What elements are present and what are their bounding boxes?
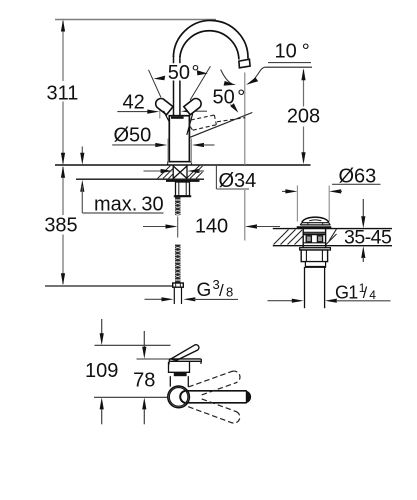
arrow down 208: [301, 152, 305, 164]
swivel boundary line L1: [190, 113, 253, 138]
Ø63 extension lines: [296, 186, 298, 222]
swivel arc right piece (10deg arrow) with arrowhead: [254, 67, 265, 80]
leader max30: [81, 186, 83, 213]
arrow left G38: [183, 297, 195, 301]
dimension 109: [101, 319, 103, 335]
gooseneck arc: [173, 20, 248, 58]
svg-text:50°: 50°: [213, 87, 246, 109]
svg-text:/: /: [219, 281, 224, 300]
dimension Ø63 arrows: [282, 190, 287, 192]
arrow right 140 left end: [166, 224, 178, 228]
arrow down 385 bottom: [61, 273, 65, 285]
svg-text:140: 140: [195, 216, 228, 238]
base ring mid circle: [169, 388, 188, 407]
arrow up 208: [301, 68, 305, 80]
waste washer under deck: [300, 248, 331, 250]
extension line from spout outlet down: [244, 73, 246, 166]
svg-text:G1: G1: [335, 282, 358, 302]
radiating line right (handle swing boundary): [190, 66, 210, 100]
dimension Ø34 arrows at shank: [144, 170, 162, 172]
base ring outer circle: [168, 386, 190, 408]
svg-text:35-45: 35-45: [344, 227, 392, 249]
G 3/8 connection nut: [173, 283, 184, 287]
mounting nut: [176, 182, 190, 196]
dashed handle swung position capsule: [190, 115, 245, 130]
extension line 42: [159, 105, 161, 119]
svg-text:8: 8: [226, 285, 233, 300]
extension tick at stud centre: [177, 217, 179, 238]
10deg reference line (208 top extension): [265, 66, 312, 68]
faucet body: [169, 116, 189, 162]
arrow right 42: [147, 110, 159, 114]
waste body slots: [306, 236, 311, 242]
cartridge cap side view: [169, 362, 190, 372]
extension line lever base: [137, 358, 173, 360]
side lever nose plate: [169, 359, 202, 365]
dimension G1 1/4: [268, 300, 294, 302]
arrow down max30: [80, 153, 84, 165]
leader with arrowhead to swivel line: [231, 105, 236, 110]
arrow up 311 top: [61, 20, 65, 32]
body side view: [169, 376, 171, 386]
svg-text:311: 311: [47, 83, 79, 105]
cartridge line inside body top: [171, 117, 184, 119]
leader underline Ø63: [332, 183, 381, 185]
dimension Ø50: [112, 144, 156, 146]
wire: top extension line (spout top reference): [55, 19, 216, 21]
dimension 42: [117, 111, 148, 113]
arrow left Ø50: [192, 143, 204, 147]
basin hatch right: [326, 229, 337, 245]
swivel arc left piece with arrowhead: [221, 70, 232, 84]
svg-text:Ø63: Ø63: [339, 166, 377, 188]
svg-text:G: G: [197, 280, 212, 301]
waste hex nut: [301, 250, 327, 262]
spout riser tube: [174, 56, 180, 116]
dimension max.30 arrows: [81, 147, 83, 155]
spout tube top view solid: [180, 391, 250, 403]
threaded stud lower segment: [175, 245, 181, 283]
arrow right G38: [162, 297, 174, 301]
waste cap dome: [302, 217, 329, 222]
dimension G3/8 arrows: [145, 298, 163, 300]
leader underline G38: [194, 298, 239, 300]
arc arrowhead right of 50deg: [197, 70, 208, 75]
arrow up max30: [80, 180, 84, 192]
dimension 385 line: [62, 167, 64, 284]
deck hatch left of shank: [158, 166, 174, 179]
handle knob right position: [184, 96, 203, 114]
handle knob left position: [154, 96, 173, 114]
extension line spout axis: [94, 396, 168, 398]
dimension 35-45 arrows: [362, 199, 364, 217]
dimension 140: [143, 226, 166, 228]
waste body neck through deck: [302, 229, 304, 248]
arrow down 311 bottom: [61, 153, 65, 165]
waste cap bottom rim: [297, 226, 332, 228]
10deg underline: [268, 62, 311, 64]
basin deck top line: [273, 228, 392, 230]
Ø50 extension lines: [167, 139, 169, 164]
arrow up 385 top: [61, 166, 65, 178]
arrow right Ø34 left: [161, 169, 173, 173]
extension line lever top: [95, 344, 171, 346]
handle stem right: [187, 114, 193, 135]
svg-text:78: 78: [133, 369, 155, 391]
washer under deck: [166, 180, 200, 182]
arrow left at spout pipe (42 right side): [181, 109, 193, 113]
svg-text:/: /: [363, 285, 368, 302]
svg-text:Ø50: Ø50: [114, 125, 152, 147]
svg-text:50°: 50°: [168, 62, 200, 84]
svg-text:4: 4: [369, 288, 376, 302]
wire: countertop deck bottom line: [76, 178, 204, 180]
svg-text:208: 208: [287, 106, 320, 128]
svg-text:42: 42: [123, 92, 145, 114]
svg-text:max. 30: max. 30: [94, 194, 164, 216]
side lever blade: [171, 345, 199, 361]
spout tube swung up (dashed): [188, 369, 241, 398]
connection pipe: [173, 287, 175, 304]
dimension 208: [303, 70, 305, 162]
arrow right Ø50: [155, 143, 167, 147]
svg-text:109: 109: [85, 360, 118, 382]
dimension 78: [143, 331, 145, 348]
arc arrowhead left of 50deg: [154, 76, 166, 81]
spout tube swung down (dashed): [188, 395, 241, 424]
leader step Ø34: [215, 165, 217, 189]
deck hatch right of shank: [188, 166, 203, 179]
threaded stud upper segment: [175, 197, 181, 215]
body base flange: [168, 161, 191, 163]
svg-text:Ø34: Ø34: [219, 170, 257, 192]
basin deck bottom line: [273, 245, 392, 247]
arrow left Ø34 right: [187, 169, 199, 173]
basin hatch left: [274, 230, 304, 245]
svg-text:10°: 10°: [275, 41, 310, 63]
waste tailpipe: [304, 267, 306, 308]
dimension 311 line: [62, 21, 64, 164]
wire: bottom reference line (hose connection level): [45, 285, 173, 287]
waste collar: [305, 262, 325, 267]
wire: countertop deck top line: [55, 164, 311, 166]
radiating line left (handle swing boundary): [149, 70, 161, 98]
cartridge dark ring: [174, 372, 187, 376]
handle stem left: [164, 111, 170, 123]
svg-text:385: 385: [44, 215, 77, 237]
faucet mounting shank through deck: [173, 165, 187, 179]
arrow left 140 right end: [245, 224, 257, 228]
spout aerator tip: [239, 59, 250, 68]
